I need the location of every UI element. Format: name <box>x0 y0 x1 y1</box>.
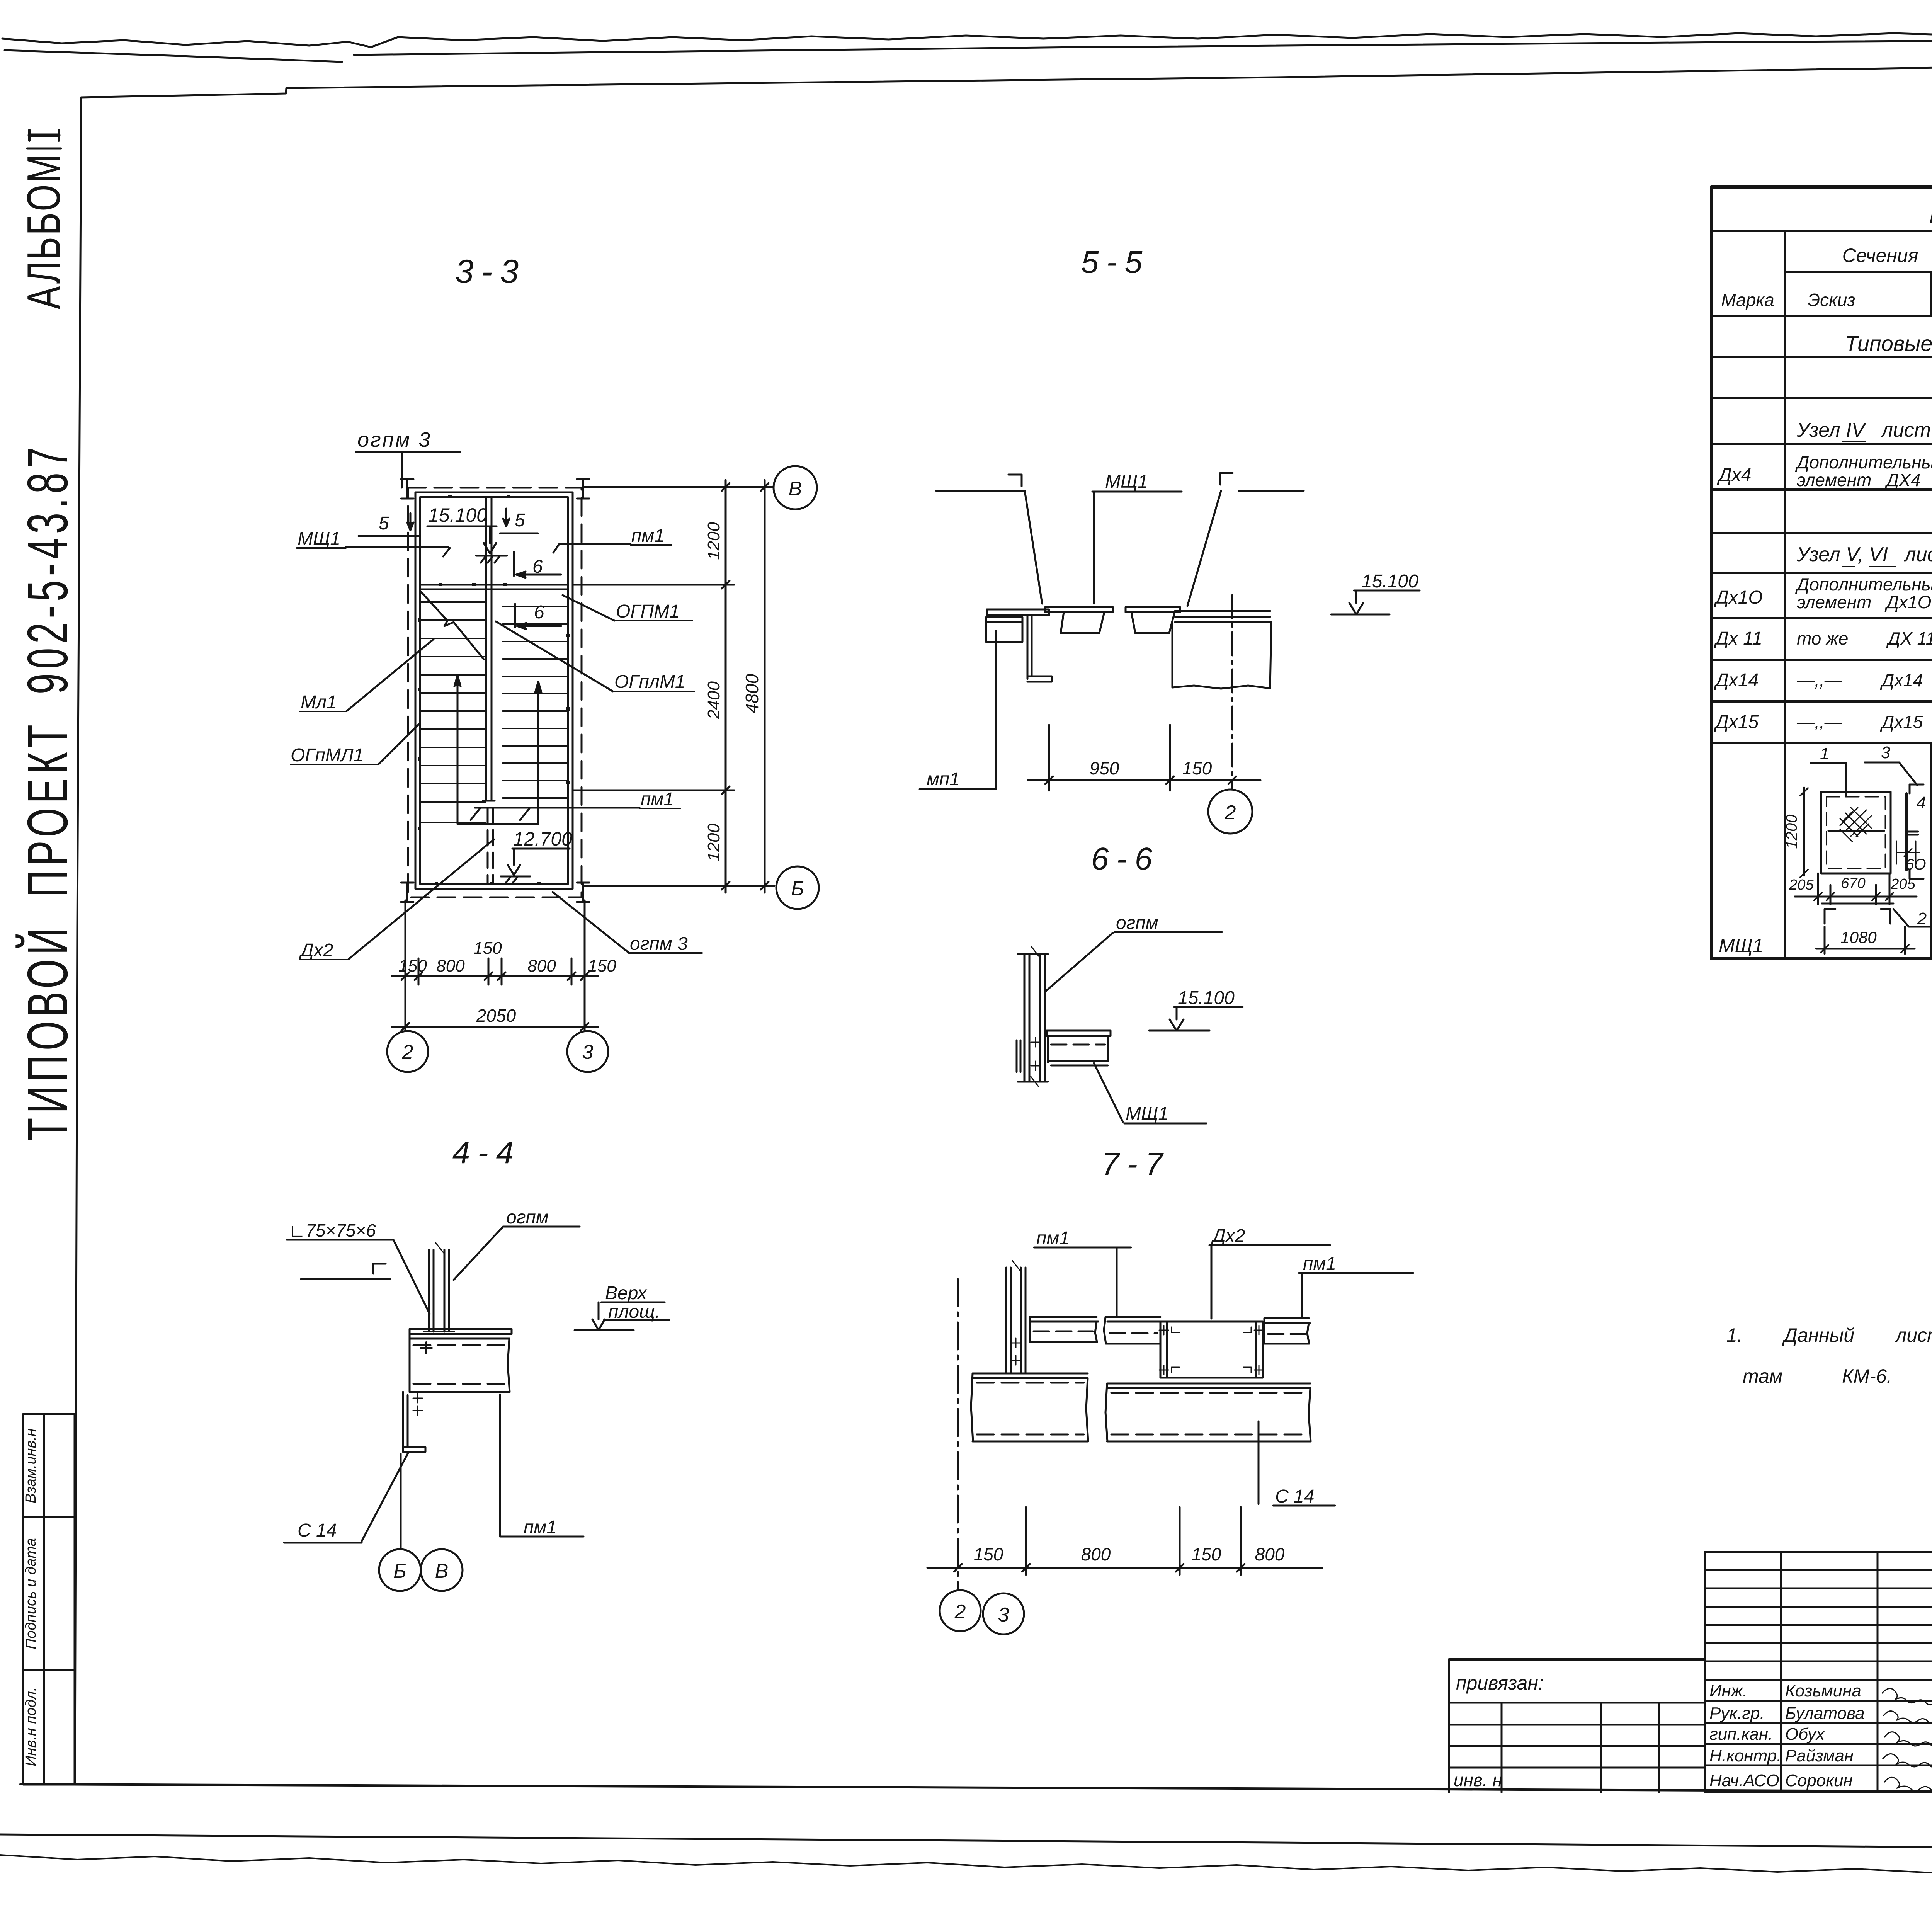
frame bottom <box>20 1784 1932 1793</box>
label pm1 top leader <box>631 544 672 546</box>
dimension line 7-7 <box>927 1567 1322 1569</box>
label MSh1 leader 6-6 <box>1124 1123 1206 1125</box>
svg-text:Сечения: Сечения <box>1842 245 1918 266</box>
weld marks 4-4 <box>413 1394 422 1415</box>
left upper plate 7-7 <box>1030 1317 1098 1342</box>
svg-text:150: 150 <box>1192 1544 1221 1564</box>
MSh1 sketch <box>1795 762 1932 954</box>
left channel top plate <box>987 609 1049 615</box>
svg-text:—,,— Дх14: —,,— Дх14 <box>1796 670 1923 690</box>
svg-text:800: 800 <box>1255 1544 1285 1564</box>
center stringer lower dashed <box>487 808 489 884</box>
table header row lines <box>1711 230 1932 232</box>
svg-text:1200: 1200 <box>704 824 723 861</box>
break line diagonal <box>421 592 484 659</box>
left block <box>986 617 1022 642</box>
svg-text:там КМ-6.: там КМ-6. <box>1743 1365 1892 1387</box>
svg-text:Узел IV лист 8: Узел IV лист 8 <box>1796 419 1932 441</box>
svg-text:Б: Б <box>393 1560 406 1582</box>
cut bracket left <box>1009 475 1022 486</box>
channel box 7-7 <box>1160 1322 1263 1378</box>
label pm1 leader 4-4 <box>500 1536 583 1538</box>
sketch crosshatch <box>1840 808 1872 842</box>
table column lines <box>1784 231 1786 959</box>
landing bottom edge <box>420 584 568 586</box>
svg-text:2050: 2050 <box>476 1006 516 1026</box>
label pm1 bottom leader <box>639 808 680 809</box>
svg-text:Узел V, VI лист 8: Узел V, VI лист 8 <box>1796 543 1932 566</box>
column base weld 4-4 <box>420 1332 454 1354</box>
svg-text:Дх 11: Дх 11 <box>1714 628 1762 649</box>
svg-text:5-5: 5-5 <box>1081 245 1150 280</box>
svg-text:Дх1О: Дх1О <box>1714 587 1763 608</box>
svg-text:2: 2 <box>1225 801 1236 824</box>
label ogpm leader 4-4 <box>503 1226 580 1228</box>
svg-text:3: 3 <box>998 1604 1009 1626</box>
bottom dimension line 1 <box>392 975 598 977</box>
label ogpm leader 6-6 <box>1115 931 1222 933</box>
svg-text:Рук.гр.: Рук.гр. <box>1709 1704 1765 1723</box>
right dimension witness lines <box>583 486 773 488</box>
column 4-4 <box>429 1250 449 1332</box>
right dimension line inner <box>725 480 727 893</box>
svg-text:Нач.АСО: Нач.АСО <box>1709 1771 1779 1790</box>
label Dx2 leader <box>299 959 349 960</box>
wall anchor dots <box>418 495 570 885</box>
middle left plate 7-7 <box>1104 1317 1160 1344</box>
svg-text:Инж.: Инж. <box>1709 1681 1747 1700</box>
svg-text:пм1: пм1 <box>524 1517 557 1538</box>
platform top plate 4-4 <box>410 1329 512 1334</box>
svg-text:то же ДХ 11: то же ДХ 11 <box>1797 628 1932 648</box>
svg-text:огпм 3: огпм 3 <box>357 428 432 451</box>
svg-text:—,,— Дх15: —,,— Дх15 <box>1796 712 1923 732</box>
axis circle 2 of 5-5 <box>1208 790 1252 834</box>
svg-text:ОГПМ1: ОГПМ1 <box>616 601 680 622</box>
bottom dimension line 2050 <box>392 1026 598 1028</box>
axis circle 3 <box>567 1031 608 1072</box>
svg-text:огпм: огпм <box>1116 913 1158 933</box>
svg-text:6: 6 <box>534 602 544 623</box>
label Dx2 leader 7-7 <box>1209 1244 1330 1246</box>
frame left <box>75 97 81 1785</box>
svg-text:Обух: Обух <box>1785 1725 1825 1744</box>
svg-text:пм1: пм1 <box>1036 1228 1070 1249</box>
svg-text:150: 150 <box>1182 758 1212 778</box>
svg-text:Марка: Марка <box>1721 290 1774 310</box>
torn paper edge bottom <box>0 1855 1932 1875</box>
axis circle B <box>776 866 819 909</box>
stair treads right flight <box>503 589 568 798</box>
column 7-7 <box>1006 1268 1026 1373</box>
svg-text:6О: 6О <box>1905 856 1926 873</box>
svg-text:ОГплМ1: ОГплМ1 <box>614 672 685 692</box>
platform body 6-6 <box>1048 1036 1108 1062</box>
sketch callout 3 <box>1865 762 1899 764</box>
left stamp boxes column <box>23 1414 75 1785</box>
flight start line <box>457 823 538 825</box>
svg-text:3: 3 <box>1881 743 1891 762</box>
svg-text:Дх4: Дх4 <box>1717 465 1752 485</box>
label OGplM1 leader <box>613 691 694 692</box>
section mark 6 lower <box>514 604 516 627</box>
svg-text:Сорокин: Сорокин <box>1785 1771 1853 1790</box>
svg-text:Типовые: Типовые <box>1845 331 1932 356</box>
column 6-6 <box>1024 954 1045 1082</box>
svg-text:15.100: 15.100 <box>1178 988 1235 1008</box>
svg-text:150: 150 <box>974 1544 1003 1564</box>
svg-text:Дополнительный: Дополнительный <box>1795 574 1932 594</box>
label S14 leader 7-7 <box>1258 1421 1260 1504</box>
svg-text:5: 5 <box>515 510 525 531</box>
lower support angle 4-4 <box>403 1392 408 1452</box>
corner mark top-left <box>401 479 413 499</box>
support angle 6-6 <box>1017 1040 1020 1072</box>
sheet cut line bottom <box>0 1834 1932 1851</box>
svg-text:2: 2 <box>954 1601 966 1623</box>
svg-text:Дх2: Дх2 <box>299 940 333 961</box>
svg-text:1: 1 <box>1820 744 1829 763</box>
svg-text:С 14: С 14 <box>298 1520 337 1541</box>
svg-text:4-4: 4-4 <box>452 1135 522 1170</box>
svg-text:ОГпМЛ1: ОГпМЛ1 <box>291 745 364 766</box>
svg-text:В: В <box>789 478 802 500</box>
svg-text:15.100: 15.100 <box>428 504 487 526</box>
sketch dim 1200 <box>1803 788 1805 876</box>
roman numeral I of ALBOM <box>29 134 59 137</box>
svg-text:150: 150 <box>588 956 616 975</box>
svg-text:150: 150 <box>473 939 502 958</box>
svg-text:15.100: 15.100 <box>1362 571 1418 592</box>
flight up arrow left <box>457 677 459 824</box>
landing divider wall <box>485 497 487 585</box>
svg-text:Подпись и дата: Подпись и дата <box>23 1538 39 1649</box>
svg-text:АЛЬБОМ: АЛЬБОМ <box>17 153 70 309</box>
middle plate B <box>1126 607 1180 612</box>
section mark 6 upper <box>513 552 515 576</box>
section mark 5 right <box>500 533 538 534</box>
platform body 4-4 <box>410 1329 510 1392</box>
svg-text:Инв.н подл.: Инв.н подл. <box>23 1687 39 1766</box>
elevation 15.100 mark 6-6 <box>1174 1006 1243 1008</box>
svg-text:площ.: площ. <box>608 1302 660 1322</box>
sketch dim bottom 205 670 205 <box>1795 896 1917 898</box>
svg-text:огпм 3: огпм 3 <box>630 934 688 954</box>
frame top <box>81 59 1932 97</box>
svg-text:МЩ1: МЩ1 <box>1719 935 1764 956</box>
axis circle 2 of 7-7 <box>940 1590 981 1631</box>
right plate 7-7 <box>1264 1318 1310 1344</box>
svg-text:4: 4 <box>1917 793 1926 812</box>
svg-text:гип.кан.: гип.кан. <box>1709 1725 1773 1744</box>
weld marks 6-6 <box>1031 1038 1040 1070</box>
label angle 75x75x6 leader <box>287 1239 393 1241</box>
flight up arrow right <box>537 683 539 824</box>
svg-text:МЩ1: МЩ1 <box>1126 1104 1168 1124</box>
elevation 12.700 mark <box>512 848 570 850</box>
label MSh1 leader <box>297 547 346 549</box>
svg-text:150: 150 <box>398 956 427 975</box>
signatures script <box>1882 1688 1932 1791</box>
axis dash-dot line 7-7 <box>957 1279 959 1589</box>
svg-text:2: 2 <box>1917 909 1927 928</box>
svg-text:мп1: мп1 <box>927 769 960 790</box>
svg-text:В: В <box>435 1560 449 1582</box>
svg-text:4800: 4800 <box>742 674 762 713</box>
title block central table <box>1705 1552 1932 1792</box>
svg-text:Булатова: Булатова <box>1785 1704 1865 1723</box>
label mp1 leader <box>920 788 995 790</box>
axis circle V <box>774 466 817 509</box>
label OGpML1 leader <box>291 764 379 765</box>
bottom dimension witness lines <box>405 900 406 988</box>
left channel web <box>1027 615 1029 679</box>
sketch callout 2 <box>1893 909 1932 927</box>
axis circle V of 4-4 <box>421 1549 463 1591</box>
elevation 15.100 mark 5-5 <box>1354 590 1420 592</box>
table outer border <box>1711 187 1932 959</box>
svg-text:∟75×75×6: ∟75×75×6 <box>288 1220 376 1240</box>
sketch mid rib <box>1828 830 1884 832</box>
svg-text:Б: Б <box>791 878 804 900</box>
cut bracket right <box>1220 473 1233 485</box>
svg-text:205: 205 <box>1890 876 1915 892</box>
svg-text:1. Данный лист смотреть со: 1. Данный лист смотреть совместно с лис- <box>1726 1324 1932 1346</box>
svg-text:элемент Дх1О: элемент Дх1О <box>1797 592 1931 612</box>
svg-text:Райзман: Райзман <box>1785 1746 1854 1765</box>
svg-text:Мл1: Мл1 <box>301 692 337 713</box>
sketch dashed frame <box>1827 797 1885 868</box>
svg-text:1200: 1200 <box>1783 815 1800 849</box>
sketch dim 60 <box>1896 841 1920 864</box>
svg-text:12.700: 12.700 <box>513 828 572 850</box>
weld marks channel 7-7 <box>1159 1326 1264 1375</box>
dimension line 5-5 <box>1028 779 1260 781</box>
svg-text:6-6: 6-6 <box>1091 841 1160 876</box>
stair well center stringer <box>485 585 487 801</box>
svg-text:7-7: 7-7 <box>1102 1147 1171 1182</box>
elevation 15.100 mark <box>427 526 497 527</box>
dimension witness lines 7-7 <box>1025 1507 1027 1575</box>
axis circle 2 <box>387 1031 428 1072</box>
svg-text:Эскиз: Эскиз <box>1808 290 1855 310</box>
axis leader line 4-4 <box>400 1454 402 1549</box>
svg-text:элемент ДХ4: элемент ДХ4 <box>1797 470 1920 490</box>
label ogpm3 top leader <box>355 451 461 453</box>
svg-text:Козьмина: Козьмина <box>1785 1681 1861 1700</box>
axis dash-dot line 5-5 <box>1231 595 1233 790</box>
axis circle 3 of 7-7 <box>983 1593 1024 1634</box>
axis circle B of 4-4 <box>379 1549 421 1591</box>
label Ml1 leader <box>299 711 347 712</box>
stair treads left flight <box>420 602 486 822</box>
svg-text:пм1: пм1 <box>631 526 665 546</box>
sketch channel profile <box>1822 903 1893 905</box>
svg-text:6: 6 <box>532 556 543 577</box>
dimension witness lines 5-5 <box>1048 725 1050 791</box>
svg-text:1200: 1200 <box>704 522 723 560</box>
svg-text:МЩ1: МЩ1 <box>1105 471 1148 492</box>
svg-text:Верх: Верх <box>605 1283 648 1303</box>
svg-text:Н.контр.: Н.контр. <box>1709 1746 1781 1765</box>
cut bracket 4-4 <box>373 1264 386 1274</box>
sketch plate outline <box>1821 792 1891 873</box>
svg-text:МЩ1: МЩ1 <box>298 529 340 549</box>
lower plank 7-7 <box>1105 1383 1311 1441</box>
svg-text:Дх14: Дх14 <box>1714 670 1759 691</box>
label pm1 right leader 7-7 <box>1299 1272 1413 1274</box>
svg-text:С 14: С 14 <box>1275 1486 1314 1507</box>
svg-text:Ведомость: Ведомость <box>1929 203 1932 228</box>
elevation verh ploshch mark <box>601 1302 665 1303</box>
svg-text:5: 5 <box>379 513 389 534</box>
svg-text:Дополнительный: Дополнительный <box>1795 452 1932 472</box>
paper fold line right <box>354 38 1932 55</box>
sketch dim 1080 <box>1816 948 1915 950</box>
platform top plate 6-6 <box>1047 1031 1111 1036</box>
label ogpm3 bottom leader <box>629 952 702 954</box>
staircase inner wall <box>420 497 568 884</box>
svg-text:950: 950 <box>1090 758 1119 778</box>
weld marks column 7-7 <box>1011 1338 1020 1365</box>
corner mark bottom-left <box>401 883 413 902</box>
svg-text:205: 205 <box>1789 877 1814 893</box>
table sub row lines <box>1931 784 1932 786</box>
privyazan block <box>1449 1659 1705 1792</box>
svg-text:800: 800 <box>527 956 556 975</box>
sketch callout 1 <box>1811 762 1846 764</box>
staircase dashed outline <box>408 488 582 897</box>
svg-text:800: 800 <box>1081 1544 1111 1564</box>
table row lines <box>1711 397 1932 399</box>
corner mark bottom-right <box>577 883 589 902</box>
label pm1 left leader 7-7 <box>1034 1247 1131 1249</box>
section mark 5 left <box>359 535 420 537</box>
torn paper edge top <box>2 32 1932 47</box>
label MSh1 leader 5-5 <box>1092 491 1182 493</box>
svg-text:Взам.инв.н: Взам.инв.н <box>23 1428 39 1503</box>
svg-text:2400: 2400 <box>704 681 723 720</box>
corner mark top-right <box>577 479 589 499</box>
svg-text:3: 3 <box>582 1041 594 1063</box>
svg-text:ТИПОВОЙ ПРОЕКТ 902-5-43.87: ТИПОВОЙ ПРОЕКТ 902-5-43.87 <box>15 443 79 1141</box>
svg-text:3-3: 3-3 <box>455 253 526 290</box>
svg-text:2: 2 <box>402 1041 413 1063</box>
label S14 leader <box>284 1542 362 1544</box>
sketch stiffener 4 <box>1905 793 1908 870</box>
svg-text:1080: 1080 <box>1840 928 1877 946</box>
svg-text:пм1: пм1 <box>1303 1254 1336 1274</box>
svg-text:670: 670 <box>1841 875 1865 892</box>
middle plate A <box>1045 607 1113 612</box>
svg-text:800: 800 <box>436 956 465 975</box>
svg-text:привязан:: привязан: <box>1456 1672 1544 1694</box>
svg-text:инв. н: инв. н <box>1454 1770 1502 1790</box>
svg-text:Дх2: Дх2 <box>1211 1226 1245 1246</box>
paper fold line left <box>5 50 342 62</box>
label OGPM1 leader <box>614 620 692 621</box>
left lower plank 7-7 <box>971 1373 1088 1441</box>
svg-text:Дх15: Дх15 <box>1714 712 1759 732</box>
right dimension line 4800 <box>764 480 766 893</box>
svg-text:пм1: пм1 <box>641 789 674 810</box>
left channel foot <box>1027 676 1052 682</box>
svg-text:огпм: огпм <box>506 1207 549 1228</box>
staircase outer wall <box>415 492 573 889</box>
right landing slab <box>1175 611 1271 622</box>
